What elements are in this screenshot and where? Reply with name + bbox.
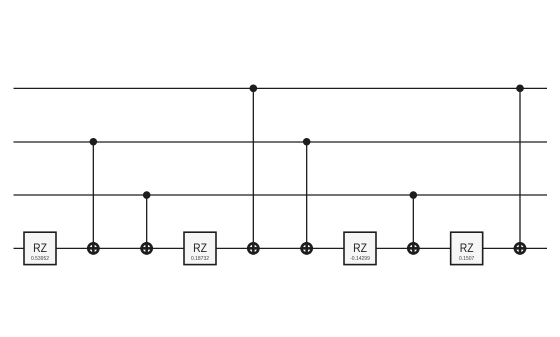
CNOT q0->q3 : wire [252,88,254,248]
CNOT q0->q3 (2nd) : control [516,85,524,93]
wire q3 [14,247,548,249]
CNOT q1->q3 : wire [92,142,94,249]
gate RZ(-0.14299) q3 [344,232,376,264]
CNOT q2->q3 (2nd) : control [410,191,418,199]
CNOT q1->q3 : control [90,138,98,146]
gate RZ(0.53952) q3 [24,232,56,264]
wire q2 [14,194,548,196]
CNOT q0->q3 (2nd) : target [514,242,527,255]
svg-text:-0.14299: -0.14299 [350,256,370,262]
CNOT q1->q3 (2nd) : target [300,242,313,255]
wire q0 [14,87,548,89]
CNOT q2->q3 (2nd) : target [407,242,420,255]
CNOT q1->q3 : target [87,242,100,255]
gate RZ(0.18732) q3 [184,232,216,264]
CNOT q2->q3 : target [140,242,153,255]
CNOT q2->q3 : wire [146,195,148,248]
svg-text:0.53952: 0.53952 [31,256,49,262]
svg-text:RZ: RZ [353,241,367,255]
CNOT q0->q3 : control [250,85,258,93]
wire q1 [14,141,548,143]
CNOT q0->q3 : target [247,242,260,255]
CNOT q1->q3 (2nd) : control [303,138,311,146]
svg-text:0.18732: 0.18732 [191,256,209,262]
CNOT q0->q3 (2nd) : wire [519,88,521,248]
svg-text:RZ: RZ [193,241,207,255]
svg-text:0.1507: 0.1507 [459,256,475,262]
svg-text:RZ: RZ [460,241,474,255]
CNOT q2->q3 (2nd) : wire [412,195,414,248]
CNOT q1->q3 (2nd) : wire [306,142,308,249]
gate RZ(0.1507) q3 [451,232,483,264]
CNOT q2->q3 : control [143,191,151,199]
svg-text:RZ: RZ [33,241,47,255]
